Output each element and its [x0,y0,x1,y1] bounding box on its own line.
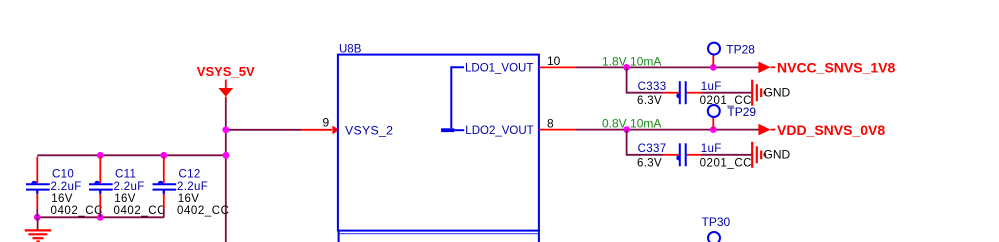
svg-text:0402_CC: 0402_CC [51,205,103,217]
svg-text:TP29: TP29 [727,105,756,119]
svg-text:GND: GND [764,85,791,99]
test point TP28 [708,43,755,68]
wire row1 NVCC [576,66,759,68]
ground left cap bank [25,217,52,241]
svg-text:0.8V 10mA: 0.8V 10mA [602,117,661,131]
capacitor C12 [153,157,230,218]
internal LDO tie line [441,67,464,132]
svg-text:C12: C12 [179,168,201,180]
node junction row2 branch [623,126,630,133]
node junction row1 branch [623,64,630,71]
svg-text:10: 10 [547,54,561,68]
svg-text:C333: C333 [638,81,667,93]
ground row2 GND [752,142,790,168]
svg-text:16V: 16V [51,193,73,205]
node junction top rail C11 [97,152,104,159]
svg-text:LDO2_VOUT: LDO2_VOUT [465,125,533,137]
node junction rail x226 y155 [223,152,230,159]
svg-text:GND: GND [764,147,791,161]
node junction row1 TP28 [710,64,717,71]
svg-text:TP30: TP30 [702,215,731,229]
svg-text:TP28: TP28 [726,43,755,57]
capacitor C333 [637,81,752,107]
svg-text:6.3V: 6.3V [637,157,662,169]
svg-text:C11: C11 [115,168,136,180]
wire horizontal to pin 9 [226,129,301,131]
test point TP30 [702,215,731,242]
off-page connector VDD_SNVS_0V8 [758,122,885,138]
node junction top rail C12 [160,152,167,159]
svg-text:C337: C337 [638,143,667,155]
wire cap bank bottom rail [37,216,164,218]
svg-text:VSYS_2: VSYS_2 [345,124,393,138]
IC U8B next section box (cropped at bottom) [339,231,539,242]
wire row2 VDD [576,129,759,131]
node junction VSYS x226 y130 [222,126,229,133]
svg-text:16V: 16V [114,193,136,205]
node junction bottom rail C11 [97,214,104,221]
capacitor C11 [89,157,166,218]
pin 8 of U8B [539,116,576,130]
node junction row2 TP29 [710,126,717,133]
svg-text:1.8V 10mA: 1.8V 10mA [602,55,661,69]
svg-text:1uF: 1uF [701,143,722,155]
power symbol VSYS_5V [197,64,255,99]
svg-text:6.3V: 6.3V [637,95,662,107]
svg-text:2.2uF: 2.2uF [51,181,82,193]
svg-text:0402_CC: 0402_CC [177,205,229,217]
svg-text:C10: C10 [52,168,74,180]
wire row1 branch to C333 [627,67,753,92]
wire cap bank top rail [37,154,226,156]
svg-text:1uF: 1uF [701,81,722,93]
svg-text:0402_CC: 0402_CC [114,205,166,217]
wire row2 branch to C337 [627,130,753,155]
node junction bottom rail gnd [34,214,41,221]
svg-text:VDD_SNVS_0V8: VDD_SNVS_0V8 [777,122,885,138]
test point TP29 [708,105,757,130]
pin 10 of U8B [539,54,576,68]
svg-text:16V: 16V [178,193,200,205]
pin 9 of U8B [301,116,339,135]
svg-text:8: 8 [547,116,554,130]
ground row1 GND [752,80,790,106]
svg-text:0201_CC: 0201_CC [700,157,752,169]
svg-text:LDO1_VOUT: LDO1_VOUT [465,63,533,75]
capacitor C337 [637,143,752,169]
svg-text:NVCC_SNVS_1V8: NVCC_SNVS_1V8 [777,59,895,75]
svg-text:U8B: U8B [339,43,362,55]
svg-text:9: 9 [323,116,330,130]
svg-text:VSYS_5V: VSYS_5V [197,64,255,79]
wire vertical VSYS_5V drop x=226 [225,99,227,242]
svg-text:2.2uF: 2.2uF [177,181,208,193]
svg-text:2.2uF: 2.2uF [114,181,145,193]
off-page connector NVCC_SNVS_1V8 [758,59,895,75]
IC U8B regulator box [338,43,539,230]
capacitor C10 [26,157,103,218]
